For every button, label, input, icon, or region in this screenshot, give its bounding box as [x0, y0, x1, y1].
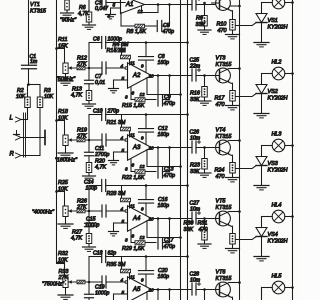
svg-text:5: 5	[113, 2, 116, 7]
svg-text:VT3: VT3	[216, 55, 226, 61]
svg-text:C27: C27	[190, 200, 201, 206]
svg-text:"7500Hz": "7500Hz"	[42, 281, 65, 287]
svg-text:33K: 33K	[190, 169, 200, 175]
svg-text:10m: 10m	[190, 136, 201, 142]
svg-text:"1800Hz": "1800Hz"	[55, 157, 78, 163]
svg-text:VT1: VT1	[30, 2, 40, 8]
svg-text:R15 1,5K: R15 1,5K	[122, 103, 145, 109]
svg-text:470: 470	[218, 28, 227, 34]
svg-text:0,01: 0,01	[95, 80, 105, 86]
svg-text:C6: C6	[93, 37, 100, 43]
svg-text:4,7K: 4,7K	[71, 235, 82, 241]
svg-text:10K: 10K	[58, 257, 68, 263]
svg-text:27K: 27K	[76, 204, 87, 210]
svg-text:10m: 10m	[190, 207, 201, 213]
svg-text:9: 9	[141, 277, 144, 282]
svg-text:R23: R23	[190, 162, 200, 168]
svg-text:VT5: VT5	[216, 198, 227, 204]
svg-text:HL5: HL5	[272, 273, 283, 279]
svg-text:C18: C18	[93, 251, 103, 257]
svg-text:6: 6	[132, 233, 135, 238]
svg-text:10K: 10K	[44, 94, 54, 100]
svg-text:A4: A4	[132, 216, 141, 222]
svg-text:C28: C28	[190, 271, 200, 277]
svg-text:4: 4	[121, 64, 124, 69]
svg-text:R8 1,5K: R8 1,5K	[127, 29, 147, 35]
svg-text:KY202H: KY202H	[268, 24, 288, 30]
svg-text:470p: 470p	[164, 173, 176, 179]
svg-text:1000p: 1000p	[95, 290, 110, 296]
svg-text:VS1: VS1	[268, 18, 278, 24]
svg-text:15K: 15K	[58, 43, 68, 49]
svg-text:10K: 10K	[58, 115, 68, 121]
svg-text:KT315: KT315	[216, 205, 233, 211]
svg-text:33K: 33K	[184, 227, 194, 233]
svg-text:"90Hz": "90Hz"	[60, 17, 77, 23]
svg-text:4: 4	[121, 207, 124, 212]
svg-text:160p: 160p	[158, 60, 170, 66]
svg-text:27K: 27K	[58, 275, 69, 281]
svg-text:470: 470	[216, 102, 225, 108]
svg-text:R18: R18	[58, 109, 68, 115]
svg-text:R24: R24	[215, 167, 225, 173]
svg-text:L: L	[10, 116, 13, 122]
svg-text:R17: R17	[215, 95, 226, 101]
svg-text:1000p: 1000p	[108, 37, 123, 43]
svg-text:9: 9	[141, 206, 144, 211]
svg-text:12: 12	[140, 164, 146, 169]
svg-text:C26: C26	[190, 129, 200, 135]
svg-text:12: 12	[140, 235, 146, 240]
svg-text:1000p: 1000p	[85, 222, 100, 228]
svg-text:33K: 33K	[196, 22, 206, 28]
svg-text:R11: R11	[58, 37, 68, 43]
svg-text:A2: A2	[132, 73, 141, 79]
svg-text:A5: A5	[132, 287, 141, 293]
svg-text:KT315: KT315	[216, 134, 233, 140]
svg-text:62p: 62p	[108, 251, 117, 257]
svg-text:270p: 270p	[107, 109, 120, 115]
svg-text:470p: 470p	[164, 244, 176, 250]
svg-text:470p: 470p	[163, 29, 175, 35]
svg-text:10m: 10m	[190, 278, 201, 284]
svg-text:C9: C9	[164, 95, 171, 101]
svg-text:11: 11	[130, 60, 135, 65]
svg-text:C25: C25	[190, 57, 200, 63]
svg-text:A3: A3	[132, 145, 141, 151]
svg-text:R16: R16	[190, 90, 200, 96]
svg-text:160p: 160p	[158, 132, 170, 138]
svg-text:4,7K: 4,7K	[95, 164, 106, 170]
svg-text:R22 1,5K: R22 1,5K	[122, 175, 145, 181]
svg-text:HL4: HL4	[272, 202, 282, 208]
svg-text:11: 11	[130, 203, 135, 208]
svg-text:R29 1,5K: R29 1,5K	[122, 246, 145, 252]
svg-text:R: R	[10, 152, 15, 158]
svg-text:9: 9	[141, 63, 144, 68]
svg-text:160p: 160p	[158, 203, 170, 209]
svg-text:R10: R10	[217, 21, 227, 27]
svg-text:22m: 22m	[189, 64, 201, 70]
svg-text:R35 3M: R35 3M	[107, 262, 126, 268]
svg-text:4,7K: 4,7K	[71, 92, 82, 98]
svg-text:HL2: HL2	[272, 59, 282, 65]
svg-text:C17: C17	[164, 238, 175, 244]
svg-text:27K: 27K	[76, 61, 87, 67]
svg-text:470p: 470p	[164, 101, 176, 107]
svg-text:KY202H: KY202H	[268, 238, 288, 244]
svg-text:HL3: HL3	[272, 131, 282, 137]
svg-text:6: 6	[132, 90, 135, 95]
svg-text:R9: R9	[196, 15, 203, 21]
svg-text:11: 11	[130, 274, 135, 279]
svg-text:0,047: 0,047	[95, 6, 109, 12]
svg-text:3: 3	[125, 94, 128, 99]
svg-text:VT6: VT6	[216, 269, 226, 275]
svg-text:12: 12	[138, 9, 144, 14]
svg-text:"500Hz": "500Hz"	[56, 76, 76, 82]
svg-text:4: 4	[121, 278, 124, 283]
svg-text:10K: 10K	[58, 186, 68, 192]
svg-text:33K: 33K	[190, 97, 200, 103]
svg-text:VS4: VS4	[268, 232, 278, 238]
svg-text:6: 6	[132, 162, 135, 167]
svg-text:C13: C13	[164, 167, 174, 173]
svg-text:160p: 160p	[158, 274, 170, 280]
svg-text:1m: 1m	[30, 59, 38, 65]
svg-text:KY202H: KY202H	[268, 95, 288, 101]
svg-text:KT315: KT315	[216, 62, 233, 68]
svg-text:3: 3	[125, 166, 128, 171]
svg-text:4: 4	[121, 136, 124, 141]
svg-text:R28 3M: R28 3M	[107, 191, 126, 197]
svg-text:3: 3	[125, 237, 128, 242]
svg-text:R30: R30	[184, 220, 194, 226]
svg-text:27K: 27K	[76, 133, 87, 139]
svg-text:470: 470	[199, 227, 208, 233]
svg-text:R25: R25	[58, 180, 69, 186]
svg-text:470: 470	[216, 174, 225, 180]
svg-text:VT4: VT4	[216, 127, 226, 133]
svg-text:2700p: 2700p	[94, 152, 110, 158]
svg-text:A1: A1	[125, 2, 133, 8]
svg-text:"4000Hz": "4000Hz"	[32, 209, 55, 215]
svg-text:R31: R31	[198, 220, 208, 226]
svg-text:KY202H: KY202H	[268, 167, 288, 173]
svg-text:KT315: KT315	[216, 276, 233, 282]
svg-text:R21 3M: R21 3M	[107, 120, 126, 126]
svg-text:12: 12	[140, 92, 146, 97]
svg-text:9: 9	[141, 135, 144, 140]
svg-text:R14 3M: R14 3M	[107, 48, 126, 54]
svg-text:R32: R32	[58, 251, 68, 257]
svg-text:C10: C10	[93, 109, 103, 115]
svg-text:VS3: VS3	[268, 161, 278, 167]
svg-text:KT315: KT315	[30, 8, 47, 14]
svg-text:4,7K: 4,7K	[78, 11, 89, 17]
svg-text:100p: 100p	[86, 186, 98, 192]
svg-text:VS2: VS2	[268, 89, 278, 95]
svg-text:11: 11	[130, 132, 135, 137]
